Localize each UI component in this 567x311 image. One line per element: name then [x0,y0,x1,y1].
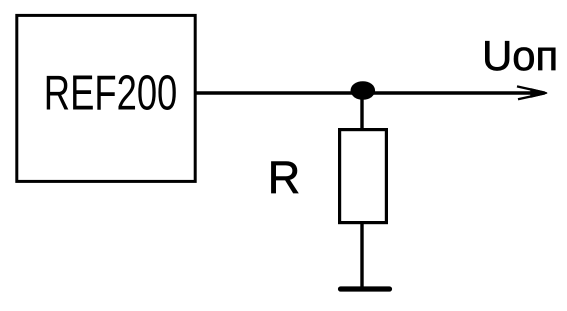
svg-text:R: R [268,152,301,203]
ground [341,286,390,291]
node: output junction [351,81,376,100]
wire: resistor R bottom to ground [360,223,363,288]
wire: junction to resistor R top [360,93,363,130]
svg-text:Uоп: Uоп [482,32,558,79]
svg-text:REF200: REF200 [44,67,178,121]
arrow head to Uop [517,86,545,99]
IC U1 REF200 box [17,15,195,181]
wire: REF200 output to arrow (net Uop) [195,91,536,94]
resistor R [340,130,387,223]
